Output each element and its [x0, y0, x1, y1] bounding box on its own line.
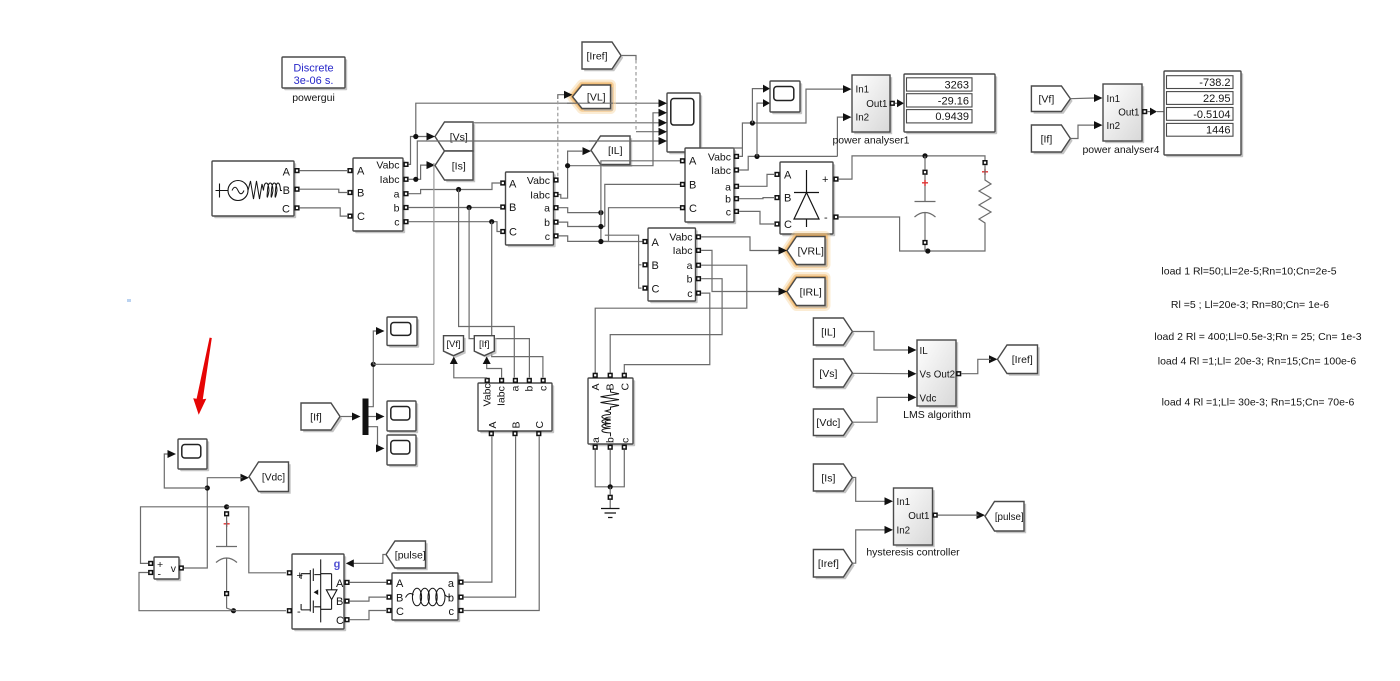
from tag [IL]	[813, 318, 854, 347]
svg-text:A: A	[590, 383, 602, 390]
goto tag [Vdc]	[241, 462, 291, 494]
svg-text:In1: In1	[897, 497, 911, 508]
goto tag [Is]	[427, 151, 476, 182]
wire Is to hysteresis	[852, 478, 884, 502]
svg-text:Out1: Out1	[1118, 108, 1139, 119]
wire LMS out to Iref	[961, 359, 991, 373]
svg-text:C: C	[509, 226, 517, 238]
svg-text:Rl =5 ; Ll=20e-3; Rn=80;Cn= 1e: Rl =5 ; Ll=20e-3; Rn=80;Cn= 1e-6	[1171, 299, 1329, 311]
wire tap to b4.A	[598, 213, 642, 244]
voltage measurement	[148, 557, 184, 581]
scope 2 small	[387, 401, 418, 433]
annotation Rl5	[1171, 299, 1329, 311]
from tag [Vdc]	[813, 409, 854, 438]
svg-text:[Vf]: [Vf]	[1039, 94, 1055, 106]
svg-text:B: B	[509, 202, 516, 214]
svg-text:c: c	[545, 231, 550, 243]
display 4	[1164, 71, 1243, 157]
wire b5.Iabc to [If]	[483, 357, 502, 378]
svg-text:Out1: Out1	[866, 99, 887, 110]
svg-text:1446: 1446	[1206, 125, 1230, 137]
goto tag [IRL]	[779, 278, 828, 308]
hysteresis controller block	[866, 488, 960, 559]
svg-text:b: b	[448, 593, 454, 605]
wire transformer neutral	[595, 450, 624, 508]
svg-text:B: B	[689, 179, 696, 191]
svg-text:a: a	[725, 181, 731, 193]
svg-text:Iabc: Iabc	[380, 174, 400, 186]
power analyser4 block	[1082, 84, 1159, 156]
svg-text:+: +	[297, 570, 303, 582]
svg-text:In1: In1	[856, 85, 870, 96]
svg-text:3e-06 s.: 3e-06 s.	[294, 75, 334, 87]
wire IGBT.B to RL.B	[350, 597, 386, 601]
wire Vabc to [Vs] and scope	[409, 103, 659, 164]
annotation load4a	[1158, 356, 1357, 368]
wire b4.b to transformer.B	[610, 279, 722, 373]
wire hysteresis out to pulse	[938, 514, 979, 516]
svg-text:C: C	[619, 383, 631, 391]
svg-text:c: c	[619, 438, 631, 443]
wire source.B to VI1.B	[300, 189, 347, 192]
svg-text:In2: In2	[897, 526, 911, 537]
svg-text:a: a	[590, 437, 602, 443]
goto tag [Vs]	[427, 122, 476, 153]
svg-text:b: b	[544, 217, 550, 229]
svg-text:C: C	[336, 615, 344, 627]
annotation load2	[1154, 331, 1361, 343]
svg-text:power analyser4: power analyser4	[1082, 144, 1159, 156]
svg-text:Iabc: Iabc	[496, 386, 508, 406]
wire vm minus loop	[139, 573, 236, 614]
goto tag [Iref]	[989, 345, 1040, 376]
svg-text:0.9439: 0.9439	[935, 111, 969, 123]
capacitor C1 branch	[915, 156, 936, 251]
svg-text:+: +	[921, 176, 928, 190]
wire Vf to pa4	[1070, 97, 1094, 100]
svg-text:B: B	[511, 421, 523, 428]
svg-text:Vabc: Vabc	[669, 232, 692, 244]
from tag [Is]	[813, 464, 854, 493]
svg-text:A: A	[784, 169, 792, 181]
LMS algorithm block	[903, 340, 971, 421]
VI measurement block 5 rotated	[478, 378, 554, 436]
svg-text:+: +	[822, 174, 828, 186]
wire minus rail to IGBT	[234, 610, 287, 612]
wire b2.b to b3.B	[559, 184, 680, 226]
wire source.A to VI1.A	[300, 170, 347, 172]
wire pulse to g	[346, 555, 386, 568]
svg-text:B: B	[396, 593, 403, 605]
scope 4	[178, 439, 209, 471]
svg-text:b: b	[394, 203, 400, 215]
red annotation arrow	[193, 338, 212, 415]
svg-text:Vabc: Vabc	[527, 175, 550, 187]
wire b3.Iabc IL net	[739, 99, 844, 170]
svg-text:C: C	[357, 211, 365, 223]
svg-text:[VRL]: [VRL]	[798, 245, 824, 257]
wire phase c net	[409, 219, 543, 377]
svg-text:[Is]: [Is]	[452, 160, 466, 172]
three-phase source	[212, 161, 300, 218]
wire b3.b to bridge.B	[739, 198, 774, 199]
wire [If] to demux	[340, 413, 361, 421]
goto tag [If] down	[474, 336, 496, 358]
svg-text:A: A	[689, 156, 697, 168]
svg-text:C: C	[652, 283, 660, 295]
demux	[363, 399, 369, 436]
wire tap to b4.C	[639, 265, 642, 288]
svg-text:a: a	[687, 260, 693, 272]
svg-text:power analyser1: power analyser1	[832, 135, 909, 147]
VI measurement block 3	[680, 148, 739, 224]
from tag [If] right	[1031, 125, 1072, 154]
svg-text:B: B	[283, 185, 290, 197]
svg-text:a: a	[394, 189, 400, 201]
wire b4.a to transformer.A	[595, 265, 747, 373]
svg-text:c: c	[726, 206, 731, 218]
svg-text:-738.2: -738.2	[1199, 77, 1230, 89]
svg-text:[Iref]: [Iref]	[1012, 354, 1033, 366]
from tag [pulse] left	[386, 541, 428, 570]
wire phase b net	[409, 205, 530, 378]
svg-text:3263: 3263	[945, 79, 969, 91]
svg-text:[Iref]: [Iref]	[586, 50, 607, 62]
wire RL.a up to VI5.A	[464, 436, 492, 582]
svg-text:-0.5104: -0.5104	[1193, 109, 1230, 121]
wire demux out1 to scope1	[369, 327, 385, 407]
svg-text:A: A	[283, 167, 291, 179]
svg-text:In2: In2	[856, 113, 870, 124]
svg-text:C: C	[689, 203, 697, 215]
svg-text:A: A	[652, 237, 660, 249]
svg-text:[IL]: [IL]	[821, 326, 836, 338]
svg-text:load 4 Rl =1;Ll= 20e-3; Rn=15;: load 4 Rl =1;Ll= 20e-3; Rn=15;Cn= 100e-6	[1158, 356, 1357, 368]
svg-text:[VL]: [VL]	[587, 92, 606, 104]
wire IGBT.C to RL.C	[350, 611, 386, 620]
goto tag [VL]	[564, 85, 613, 111]
wire b3.c to bridge.C	[739, 211, 774, 224]
svg-text:c: c	[449, 606, 455, 618]
svg-text:[pulse]: [pulse]	[395, 549, 426, 561]
wire pa4 out to display4	[1147, 108, 1164, 116]
wire source.C to VI1.C	[300, 208, 347, 216]
svg-text:[IL]: [IL]	[608, 145, 623, 157]
wire b3.Vabc VL net	[701, 85, 844, 157]
scope 3 small	[387, 435, 418, 467]
svg-text:Vabc: Vabc	[708, 151, 731, 163]
wire phase a net	[409, 183, 515, 378]
svg-text:load 4 Rl =1;Ll= 30e-3; Rn=15;: load 4 Rl =1;Ll= 30e-3; Rn=15;Cn= 70e-6	[1162, 397, 1355, 409]
svg-text:a: a	[448, 578, 455, 590]
svg-text:Vabc: Vabc	[482, 383, 494, 406]
IGBT inverter bridge	[287, 554, 350, 631]
wire scope in1 over [VL]	[567, 102, 613, 104]
display 1	[904, 74, 997, 134]
faint blue dot	[127, 299, 131, 302]
annotation load1	[1161, 266, 1336, 278]
svg-text:In2: In2	[1107, 121, 1121, 132]
svg-text:Out1: Out1	[908, 511, 929, 522]
diode bridge rectifier	[774, 162, 838, 236]
svg-text:A: A	[336, 578, 344, 590]
svg-text:[If]: [If]	[1041, 133, 1053, 145]
svg-text:c: c	[538, 386, 550, 391]
wire vm plus loop	[141, 504, 230, 563]
svg-text:a: a	[510, 386, 522, 392]
wire b3.a to bridge.A	[739, 174, 774, 186]
wire b4.c to transformer.C	[624, 293, 710, 373]
annotation load4b	[1162, 397, 1355, 409]
wire scope in5 over [IL]	[589, 140, 632, 142]
goto tag [pulse]	[977, 502, 1027, 534]
wire demux out2 to scope2	[369, 413, 385, 421]
wire b2.c to b3.C	[559, 208, 680, 242]
svg-text:[IRL]: [IRL]	[800, 286, 822, 298]
wire DC minus rail	[839, 217, 985, 254]
svg-text:-29.16: -29.16	[938, 95, 969, 107]
wire scope input3	[473, 122, 660, 124]
svg-text:[Vdc]: [Vdc]	[262, 473, 285, 484]
svg-text:-: -	[297, 606, 301, 618]
wire cap to IGBT plus	[227, 507, 286, 573]
from tag [Vf]	[1031, 86, 1072, 114]
svg-text:[If]: [If]	[479, 339, 490, 350]
wire IGBT.A to RL.A	[350, 581, 386, 583]
svg-text:load 2 Rl = 400;Ll=0.5e-3;Rn =: load 2 Rl = 400;Ll=0.5e-3;Rn = 25; Cn= 1…	[1154, 331, 1361, 343]
powergui block	[282, 57, 347, 104]
wire IL to LMS	[852, 332, 908, 351]
svg-text:[Iref]: [Iref]	[818, 558, 839, 570]
svg-text:a: a	[544, 203, 550, 215]
goto tag [IL]	[583, 136, 633, 167]
svg-text:C: C	[282, 204, 290, 216]
svg-text:[Is]: [Is]	[821, 472, 835, 484]
from tag [If] left	[301, 403, 342, 432]
three-phase RL branch	[386, 573, 463, 622]
wire vertical to junction	[373, 163, 434, 364]
wire RL.c up to VI5.C	[464, 436, 540, 610]
svg-text:b: b	[687, 274, 693, 286]
svg-text:B: B	[652, 260, 659, 272]
svg-text:IL: IL	[920, 346, 929, 357]
wire vm to Vdc and scope4	[164, 450, 242, 568]
svg-text:Vabc: Vabc	[376, 159, 399, 171]
from tag [Iref] top	[582, 42, 623, 71]
wire b5.Vabc to [Vf]	[450, 357, 487, 378]
goto tag [Vf] down	[444, 336, 466, 358]
svg-text:hysteresis controller: hysteresis controller	[866, 547, 960, 559]
svg-text:c: c	[687, 288, 692, 300]
ground symbol	[601, 509, 620, 518]
svg-text:B: B	[605, 383, 617, 390]
wire b4.Iabc to [IRL]	[701, 250, 778, 291]
wire VI2.Vabc to [VL]	[556, 95, 564, 180]
VI measurement block 4	[642, 228, 701, 303]
wire b2.a to b3.A	[559, 161, 680, 215]
wire VI2.Iabc to [IL] and scope	[556, 113, 659, 198]
svg-text:b: b	[605, 437, 617, 443]
svg-text:c: c	[394, 217, 399, 229]
svg-text:Iabc: Iabc	[711, 165, 731, 177]
wire tap to b4.B	[605, 235, 642, 265]
svg-text:A: A	[509, 178, 517, 190]
svg-text:-: -	[824, 212, 828, 224]
scope 1 small	[387, 317, 419, 348]
svg-text:b: b	[725, 194, 731, 206]
resistor R load branch	[979, 160, 991, 237]
from tag [Iref] low	[813, 550, 854, 580]
svg-text:Iabc: Iabc	[673, 245, 693, 257]
svg-text:In1: In1	[1107, 94, 1121, 105]
svg-text:B: B	[784, 193, 791, 205]
wire If to pa4	[1070, 125, 1094, 138]
scope 5	[770, 81, 802, 114]
svg-text:b: b	[524, 386, 536, 392]
svg-text:C: C	[534, 421, 546, 429]
VI measurement block 2	[500, 172, 558, 247]
svg-text:A: A	[396, 578, 404, 590]
wire demux out3 to scope3	[369, 427, 385, 453]
svg-text:[pulse]: [pulse]	[995, 512, 1024, 523]
svg-text:22.95: 22.95	[1203, 93, 1231, 105]
svg-text:Iabc: Iabc	[530, 190, 550, 202]
wire Iabc to [Is] and scope	[409, 141, 659, 182]
scope main	[659, 93, 703, 154]
svg-text:LMS algorithm: LMS algorithm	[903, 409, 971, 421]
svg-text:[Vs]: [Vs]	[819, 368, 837, 380]
capacitor C2	[216, 511, 237, 611]
wire [Iref] to scope	[621, 56, 659, 132]
svg-text:Vs: Vs	[920, 369, 932, 380]
svg-text:-: -	[158, 569, 162, 581]
svg-text:C: C	[784, 219, 792, 231]
svg-text:A: A	[487, 421, 499, 428]
svg-text:g: g	[334, 559, 341, 571]
svg-text:load 1 Rl=50;Ll=2e-5;Rn=10;Cn=: load 1 Rl=50;Ll=2e-5;Rn=10;Cn=2e-5	[1161, 266, 1336, 278]
svg-text:A: A	[357, 166, 365, 178]
svg-text:C: C	[396, 606, 404, 618]
wire RL.b up to VI5.B	[464, 436, 516, 597]
power analyser1 block	[832, 75, 909, 147]
wire Iref to hysteresis	[852, 530, 884, 563]
svg-text:[If]: [If]	[310, 411, 322, 423]
from tag [Vs]	[813, 359, 854, 389]
svg-text:Vdc: Vdc	[920, 393, 937, 404]
svg-text:B: B	[357, 188, 364, 200]
svg-text:Discrete: Discrete	[293, 63, 333, 75]
svg-text:[Vdc]: [Vdc]	[816, 417, 840, 429]
goto tag [VRL]	[779, 237, 828, 267]
svg-text:B: B	[336, 596, 343, 608]
wire DC plus rail	[839, 153, 985, 179]
svg-text:Out2: Out2	[934, 369, 955, 380]
svg-text:powergui: powergui	[292, 92, 335, 104]
svg-text:v: v	[171, 563, 177, 575]
VI measurement block 1	[347, 158, 408, 233]
three-phase transformer	[588, 373, 635, 450]
wire Vdc to LMS	[852, 397, 908, 422]
wire pa1 out to display1	[895, 99, 904, 107]
wire Vs to LMS	[852, 372, 908, 374]
wire b4.Vabc to [VRL]	[701, 237, 778, 251]
svg-text:[Vf]: [Vf]	[446, 339, 460, 350]
